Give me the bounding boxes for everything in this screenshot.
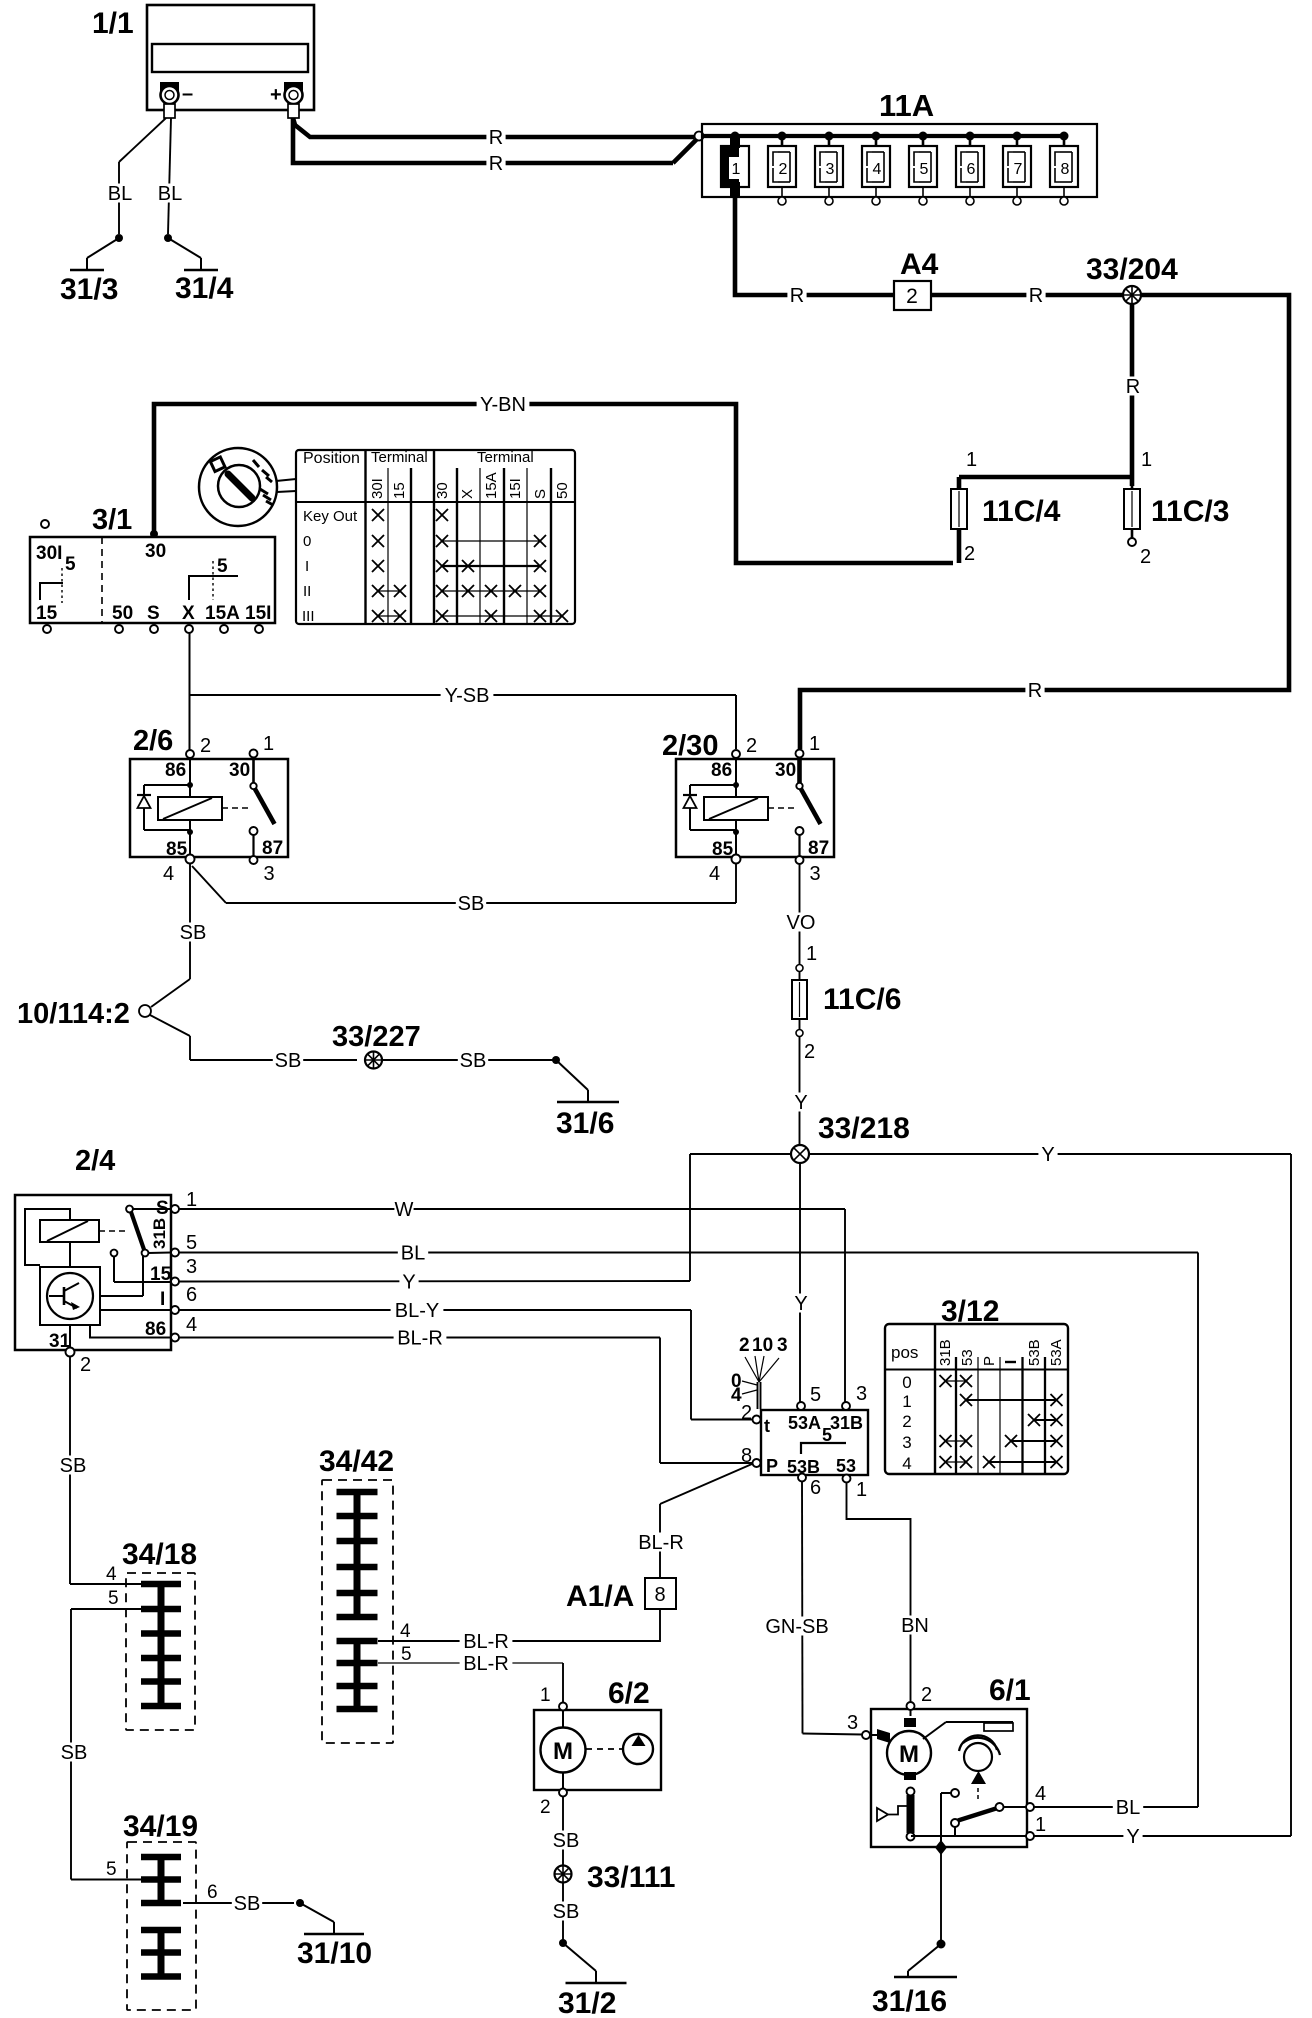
svg-text:1/1: 1/1 [92, 7, 134, 40]
relay 2/4 switch contact [111, 1206, 149, 1257]
svg-text:10/114:2: 10/114:2 [17, 998, 130, 1030]
svg-text:3: 3 [186, 1256, 197, 1278]
svg-text:Position: Position [303, 450, 360, 467]
svg-text:53: 53 [959, 1349, 976, 1366]
wire Y-BN ignition switch 30 to fuse 11C/4 pin 2 [154, 394, 953, 563]
relay 2/4 box [15, 1195, 171, 1350]
svg-text:Y: Y [794, 1293, 807, 1315]
wire BL relay 2/4 31B to wiper motor 6/1 pin 4 [179, 1242, 1198, 1819]
svg-text:BL-Y: BL-Y [395, 1300, 439, 1322]
svg-text:X: X [459, 489, 476, 499]
bus junction fuse 1 [731, 132, 740, 141]
fuse 6 [956, 136, 984, 205]
svg-text:11C/4: 11C/4 [982, 495, 1061, 528]
svg-text:5: 5 [810, 1384, 821, 1406]
svg-text:53B: 53B [1026, 1339, 1043, 1366]
svg-text:1: 1 [806, 943, 817, 965]
washer pump 6/2 label [608, 1677, 650, 1710]
relay 2/4 terminal labels [49, 1198, 172, 1352]
wire Y splice 33/218 to wiper motor 6/1 pin 1 [809, 1144, 1291, 1848]
svg-text:31B: 31B [150, 1218, 169, 1249]
ignition switch pins [43, 625, 263, 633]
splice 33/218 label [818, 1112, 910, 1145]
svg-text:53: 53 [836, 1456, 856, 1476]
fuse 11C/6 label [823, 983, 901, 1016]
svg-text:0: 0 [902, 1373, 911, 1392]
svg-text:5: 5 [822, 1425, 832, 1445]
svg-text:SB: SB [553, 1830, 580, 1852]
svg-text:3: 3 [826, 161, 835, 178]
relay 2/4 internal wiring [25, 1209, 171, 1348]
battery positive terminal [270, 82, 303, 118]
svg-text:4: 4 [106, 1564, 117, 1585]
svg-text:S: S [156, 1198, 169, 1219]
wire SB terminal 10/114:2 to splice 33/227 [150, 1015, 357, 1072]
svg-text:R: R [1029, 285, 1043, 307]
svg-text:Y: Y [1126, 1826, 1139, 1848]
wiper switch terminal labels [764, 1413, 863, 1477]
svg-text:2: 2 [739, 1335, 750, 1356]
splice 33/111 [555, 1866, 572, 1883]
svg-text:33/111: 33/111 [587, 1861, 675, 1894]
svg-text:2: 2 [964, 543, 975, 565]
wire BL-R connector 34/42 pin 5 to washer pump 6/2 [378, 1653, 563, 1702]
relay 2/4 timer transistor [40, 1267, 100, 1325]
svg-text:6: 6 [207, 1882, 218, 1903]
connector A4 label [900, 248, 939, 281]
svg-text:2: 2 [1140, 546, 1151, 568]
svg-text:2: 2 [540, 1797, 551, 1818]
svg-text:SB: SB [60, 1455, 87, 1477]
washer pump 6/2 [534, 1685, 661, 1818]
svg-text:W: W [395, 1199, 414, 1221]
svg-text:15I: 15I [245, 603, 271, 624]
svg-text:3: 3 [264, 863, 275, 885]
svg-text:5: 5 [65, 554, 76, 575]
svg-text:S: S [147, 603, 160, 624]
wiper switch table 3/12 label [941, 1295, 999, 1328]
svg-text:2: 2 [921, 1684, 932, 1706]
svg-text:2: 2 [902, 1412, 911, 1431]
bus junction fuse 4 [872, 132, 881, 141]
svg-text:6/1: 6/1 [989, 1674, 1031, 1707]
wire BL-R connector A1/A to connector 34/42 pin 4 [378, 1609, 660, 1653]
relay 2/30 [676, 733, 834, 885]
fuse 7 [1003, 136, 1031, 205]
fuse 11C/4 label [982, 495, 1061, 528]
wiper switch pins [741, 1383, 867, 1501]
svg-text:SB: SB [61, 1742, 88, 1764]
svg-text:M: M [553, 1738, 573, 1765]
svg-text:P: P [766, 1456, 778, 1476]
svg-text:2/30: 2/30 [662, 730, 718, 762]
wiper motor 6/1 armature resistor bar [907, 1788, 915, 1841]
ignition switch terminal labels [36, 541, 271, 624]
svg-text:5: 5 [401, 1644, 412, 1665]
wire Y-SB ignition X to relays 2/6 and 2/30 [190, 633, 737, 750]
svg-text:BL-R: BL-R [463, 1631, 509, 1653]
svg-text:BN: BN [901, 1615, 929, 1637]
ground 31/6 [552, 1056, 619, 1140]
wire Y splice 33/218 down to wiper switch 53A [791, 1163, 810, 1402]
svg-text:4: 4 [873, 161, 882, 178]
key to table links [276, 479, 296, 492]
fuse 3 [815, 136, 843, 205]
svg-text:15A: 15A [205, 603, 240, 624]
svg-text:30: 30 [145, 541, 166, 562]
svg-text:Key Out: Key Out [303, 508, 358, 525]
svg-text:SB: SB [458, 893, 485, 915]
wire BL-Y relay 2/4 I to wiper switch t [179, 1300, 752, 1420]
svg-text:R: R [790, 285, 804, 307]
ignition switch 3/1 pin 30I stub [41, 520, 49, 528]
fuse 8 [1050, 136, 1078, 205]
svg-text:BL-R: BL-R [463, 1653, 509, 1675]
wire Y splice 33/218 to relay 2/4 terminal 15 [179, 1154, 791, 1293]
svg-text:3: 3 [847, 1712, 858, 1734]
svg-text:0: 0 [303, 533, 311, 550]
svg-text:1: 1 [856, 1479, 867, 1501]
splice 33/218 [791, 1145, 809, 1163]
svg-text:Y: Y [794, 1092, 807, 1114]
svg-text:1: 1 [1141, 449, 1152, 471]
svg-text:3: 3 [902, 1433, 911, 1452]
svg-text:8: 8 [1061, 161, 1070, 178]
svg-text:3: 3 [810, 863, 821, 885]
wire R connector A4 to splice 33/204 [931, 285, 1123, 307]
bus junction fuse 3 [825, 132, 834, 141]
svg-text:31B: 31B [937, 1339, 954, 1366]
svg-text:1: 1 [540, 1685, 551, 1706]
fuse 4 [862, 136, 890, 205]
ground 31/2 [558, 1939, 627, 2018]
svg-text:33/227: 33/227 [332, 1021, 421, 1053]
svg-text:30I: 30I [36, 543, 62, 564]
bus junction fuse 6 [966, 132, 975, 141]
svg-text:2/6: 2/6 [133, 725, 173, 757]
svg-text:33/218: 33/218 [818, 1112, 910, 1145]
svg-text:4: 4 [186, 1314, 197, 1336]
wire SB connector 34/18 pin 5 to connector 34/19 pin 5 [59, 1609, 142, 1880]
relay 2/4 coil [40, 1220, 99, 1242]
wiper switch internal contact [801, 1425, 846, 1454]
svg-text:15: 15 [391, 482, 408, 499]
svg-text:4: 4 [1035, 1783, 1046, 1805]
svg-text:4: 4 [400, 1621, 411, 1642]
wire SB connector 34/19 pin 6 to ground 31/10 [183, 1893, 294, 1915]
svg-text:4: 4 [709, 863, 720, 885]
svg-text:GN-SB: GN-SB [765, 1616, 828, 1638]
svg-text:BL-R: BL-R [638, 1532, 684, 1554]
ignition switch contact symbols [40, 561, 238, 603]
bus junction fuse 2 [778, 132, 787, 141]
wiper motor 6/1 ground junction [935, 1840, 947, 1855]
wire SB washer pump 6/2 to splice 33/111 [551, 1796, 581, 1866]
svg-text:6/2: 6/2 [608, 1677, 650, 1710]
svg-text:11C/3: 11C/3 [1151, 495, 1229, 528]
wiper motor 6/1 park switch [911, 1789, 1026, 1844]
fuse box 11A label [879, 88, 934, 123]
svg-text:2: 2 [80, 1354, 91, 1376]
svg-text:2: 2 [906, 285, 918, 308]
svg-text:3: 3 [777, 1335, 788, 1356]
connector A4 pin 2 [894, 281, 931, 310]
svg-text:2: 2 [779, 161, 788, 178]
svg-text:30I: 30I [369, 478, 386, 499]
svg-text:BL: BL [108, 183, 132, 205]
node ignition feed 30 [150, 530, 158, 538]
wire SB relay 2/6 85 to relay 2/30 85 [192, 863, 736, 915]
wiper switch box [761, 1410, 868, 1475]
svg-text:SB: SB [460, 1050, 487, 1072]
svg-text:8: 8 [654, 1584, 665, 1606]
svg-text:VO: VO [787, 912, 816, 934]
fuse 11C/4 [951, 477, 975, 565]
svg-text:34/19: 34/19 [123, 1810, 198, 1843]
svg-text:34/42: 34/42 [319, 1445, 394, 1478]
connector 34/42 label [319, 1445, 394, 1478]
connector 34/42 [322, 1480, 412, 1743]
svg-text:SB: SB [275, 1050, 302, 1072]
wire R fuse 1 to connector A4 [735, 197, 894, 307]
wire R splice 33/204 to relay 2/30 terminal 30 [800, 295, 1289, 749]
wire SB relay 2/4 31 to connector 34/18 pin 4 [58, 1356, 141, 1584]
svg-text:R: R [1028, 680, 1042, 702]
fuse 11C/3 label [1151, 495, 1229, 528]
svg-text:6: 6 [967, 161, 976, 178]
wire BL-R wiper switch P to connector A1/A [635, 1464, 752, 1578]
ignition position table [296, 449, 575, 625]
svg-text:2: 2 [741, 1402, 752, 1424]
svg-text:P: P [981, 1356, 998, 1366]
svg-text:+: + [270, 84, 282, 106]
svg-text:5: 5 [106, 1859, 117, 1880]
wire W relay 2/4 S to wiper switch 31B [179, 1199, 845, 1402]
svg-text:X: X [182, 603, 195, 624]
wiper motor 6/1 label [989, 1674, 1031, 1707]
wiper motor 6/1 motor M [870, 1710, 931, 1780]
svg-text:1: 1 [732, 161, 741, 178]
svg-text:4: 4 [902, 1454, 911, 1473]
wire R splice 33/204 down to fuse 11C/3 [1123, 304, 1142, 486]
svg-text:15: 15 [36, 603, 58, 624]
connector A1/A pin 8 [645, 1578, 676, 1609]
svg-text:III: III [302, 608, 315, 625]
relay 2/4 label [75, 1145, 115, 1177]
svg-text:50: 50 [112, 603, 133, 624]
svg-text:8: 8 [741, 1445, 752, 1467]
svg-text:Y-SB: Y-SB [445, 685, 490, 707]
svg-text:31/2: 31/2 [558, 1987, 616, 2018]
fuse 5 [909, 136, 937, 205]
svg-text:15: 15 [150, 1264, 172, 1285]
terminal 10/114:2 label [17, 998, 130, 1030]
svg-text:2: 2 [804, 1041, 815, 1063]
ignition switch 3/1 label [92, 504, 132, 536]
svg-text:53A: 53A [788, 1413, 821, 1433]
wire VO relay 2/30 87 to fuse 11C/6 [786, 864, 816, 964]
terminal 10/114:2 [139, 1005, 151, 1017]
wire BL battery negative to ground 31/3 [105, 118, 166, 234]
wire BL-R relay 2/4 86 to wiper switch P [179, 1327, 752, 1463]
svg-text:3/1: 3/1 [92, 504, 132, 536]
svg-text:4: 4 [163, 863, 174, 885]
svg-text:–: – [182, 83, 193, 105]
svg-text:30: 30 [775, 760, 796, 781]
wire R battery positive to fuse box lower [293, 118, 697, 175]
wire wiper motor 6/1 to ground 31/16 [940, 1852, 942, 1940]
bus junction fuse 8 [1060, 132, 1069, 141]
fuse 1 (active) [721, 136, 749, 197]
svg-text:2: 2 [746, 735, 757, 757]
relay 2/6 [130, 733, 288, 885]
svg-text:86: 86 [711, 760, 732, 781]
svg-text:53A: 53A [1048, 1339, 1065, 1366]
ground 31/3 [60, 234, 123, 306]
svg-text:6: 6 [186, 1284, 197, 1306]
splice 33/227 label [332, 1021, 421, 1053]
svg-text:10: 10 [752, 1335, 773, 1356]
svg-text:1: 1 [263, 733, 274, 755]
svg-text:A4: A4 [900, 248, 939, 281]
connector 34/19 label [123, 1810, 198, 1843]
wiper motor 6/1 flex link [877, 1806, 907, 1821]
connector 34/18 label [122, 1538, 197, 1571]
svg-text:I: I [305, 558, 309, 575]
wiper switch table 3/12 [885, 1324, 1068, 1474]
connector 34/19 [106, 1842, 218, 2010]
svg-text:87: 87 [808, 838, 829, 859]
svg-text:5: 5 [920, 161, 929, 178]
svg-text:30: 30 [434, 482, 451, 499]
fuse 11C/3 [1124, 486, 1151, 568]
svg-text:R: R [489, 127, 503, 149]
fuse box 11A outline [702, 124, 1097, 197]
splice 33/111 label [587, 1861, 675, 1894]
wire GN-SB wiper switch 53B to wiper motor 6/1 pin 3 [765, 1482, 862, 1735]
svg-text:87: 87 [262, 838, 283, 859]
wiper motor 6/1 park cam [959, 1735, 1000, 1799]
svg-text:11C/6: 11C/6 [823, 983, 901, 1016]
svg-text:Terminal: Terminal [371, 449, 428, 466]
wiper motor 6/1 internal link to thermal guard [923, 1722, 1013, 1739]
node fuse box feed [695, 132, 704, 141]
wire SB splice 33/227 to ground 31/6 [382, 1050, 555, 1072]
wire R battery positive to fuse box upper [293, 118, 694, 149]
svg-text:BL: BL [1116, 1797, 1140, 1819]
fuse 11C/6 [792, 943, 817, 1063]
svg-text:1: 1 [966, 449, 977, 471]
svg-text:31/6: 31/6 [556, 1107, 614, 1140]
splice 33/204 [1123, 286, 1141, 304]
battery negative terminal [160, 82, 193, 118]
svg-text:86: 86 [165, 760, 186, 781]
svg-text:6: 6 [810, 1477, 821, 1499]
svg-text:BL: BL [158, 183, 182, 205]
svg-text:II: II [303, 583, 311, 600]
svg-text:1: 1 [1035, 1814, 1046, 1836]
svg-text:50: 50 [554, 482, 571, 499]
connector A1/A label [566, 1580, 634, 1613]
svg-text:15A: 15A [483, 472, 500, 499]
battery 1/1 [147, 5, 314, 110]
ground 31/16 [872, 1940, 957, 2018]
wire SB relay 2/6 85 down to terminal 10/114:2 [151, 864, 208, 1007]
wire link fuse 11C/4 pin 1 to fuse 11C/3 pin 1 [959, 449, 1152, 477]
svg-text:5: 5 [108, 1588, 119, 1609]
svg-text:SB: SB [234, 1893, 261, 1915]
svg-text:SB: SB [553, 1901, 580, 1923]
svg-text:Y-BN: Y-BN [480, 394, 526, 416]
svg-text:1: 1 [186, 1189, 197, 1211]
ignition switch 3/1 box [30, 537, 275, 623]
splice 33/227 [365, 1052, 382, 1069]
svg-text:31B: 31B [830, 1413, 863, 1433]
svg-text:1: 1 [902, 1392, 911, 1411]
wire BN wiper switch 53 to wiper motor 6/1 pin 2 [847, 1483, 931, 1702]
connector 34/18 [106, 1564, 195, 1730]
table connection marks [372, 509, 568, 622]
svg-text:31/10: 31/10 [297, 1937, 372, 1970]
wire Y fuse 11C/6 to splice 33/218 [791, 1037, 810, 1145]
svg-text:2: 2 [200, 735, 211, 757]
wire SB splice 33/111 to ground 31/2 [551, 1882, 581, 1940]
svg-text:Y: Y [1041, 1144, 1054, 1166]
svg-text:86: 86 [145, 1319, 166, 1340]
relay 2/6 label [133, 725, 173, 757]
key symbol [199, 448, 277, 526]
svg-text:85: 85 [166, 839, 188, 860]
svg-text:5: 5 [186, 1232, 197, 1254]
svg-text:11A: 11A [879, 88, 934, 123]
svg-text:Y: Y [402, 1271, 415, 1293]
svg-text:31/16: 31/16 [872, 1985, 947, 2018]
fuse 2 [768, 136, 796, 205]
svg-text:85: 85 [712, 839, 734, 860]
wiper motor 6/1 pins [847, 1684, 1046, 1840]
svg-text:2/4: 2/4 [75, 1145, 115, 1177]
table 3/12 connection marks [940, 1375, 1063, 1468]
svg-text:S: S [532, 489, 549, 499]
svg-text:1: 1 [809, 733, 820, 755]
splice 33/204 label [1086, 253, 1178, 286]
svg-text:3: 3 [856, 1383, 867, 1405]
svg-text:R: R [1126, 376, 1140, 398]
wiper switch lever positions [731, 1335, 788, 1409]
svg-text:SB: SB [180, 922, 207, 944]
svg-text:34/18: 34/18 [122, 1538, 197, 1571]
svg-text:Terminal: Terminal [477, 449, 534, 466]
svg-text:t: t [764, 1416, 770, 1436]
battery 1/1 label [92, 7, 134, 40]
svg-text:I: I [160, 1289, 165, 1310]
svg-text:15I: 15I [507, 478, 524, 499]
svg-text:33/204: 33/204 [1086, 253, 1178, 286]
ground 31/4 [164, 234, 234, 305]
svg-text:R: R [489, 153, 503, 175]
wire BL battery negative to ground 31/4 [155, 118, 185, 234]
svg-text:M: M [899, 1741, 919, 1768]
bus bar [703, 134, 1064, 138]
ground 31/10 [296, 1899, 372, 1970]
svg-text:30: 30 [229, 760, 250, 781]
wiper motor 6/1 box [871, 1709, 1027, 1847]
svg-text:7: 7 [1014, 161, 1023, 178]
bus junction fuse 7 [1013, 132, 1022, 141]
svg-text:31/4: 31/4 [175, 272, 234, 305]
relay 2/30 label [662, 730, 718, 762]
svg-text:BL: BL [401, 1242, 425, 1264]
